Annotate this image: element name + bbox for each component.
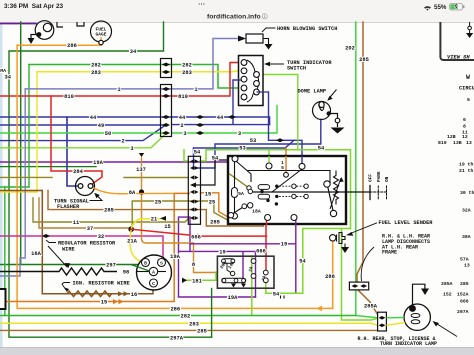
svg-text:13B: 13B	[453, 140, 462, 146]
wire navy in-box	[301, 156, 303, 163]
wire 37 tan	[39, 198, 130, 228]
svg-text:25: 25	[209, 200, 215, 206]
wire 285A brown diagonal	[358, 290, 378, 315]
wire black off-park-on	[346, 191, 370, 193]
svg-text:181: 181	[192, 278, 202, 284]
svg-text:TURN INDICATOR LAMP: TURN INDICATOR LAMP	[380, 341, 437, 347]
junction dot 21A	[128, 226, 134, 232]
svg-text:297: 297	[106, 262, 116, 268]
svg-text:285: 285	[359, 57, 369, 63]
svg-text:2: 2	[121, 139, 124, 145]
svg-text:fordification.info: fordification.info	[207, 14, 261, 21]
svg-text:1: 1	[117, 87, 120, 93]
svg-text:53: 53	[250, 138, 256, 144]
splice pair 2b	[196, 123, 204, 127]
status bar background	[0, 0, 474, 23]
view box symbols	[469, 22, 471, 33]
wire 53 navy connector drop	[194, 120, 321, 169]
disconnect contact 1	[379, 316, 386, 320]
splice pair 32	[42, 234, 50, 238]
wire 297 dark green	[0, 265, 156, 272]
breaker link	[233, 208, 242, 214]
turn switch inner shape	[247, 60, 259, 102]
svg-text:34: 34	[130, 49, 137, 55]
box main bus line	[253, 191, 346, 193]
contact pair c3-1	[190, 159, 199, 163]
fuse right circle r2	[251, 274, 256, 279]
sender body	[337, 233, 346, 244]
svg-text:38A: 38A	[462, 234, 471, 240]
wire purple in-box	[295, 219, 297, 225]
wire purple to instrument lamp	[0, 23, 36, 25]
wire 283 yellow top	[37, 71, 241, 72]
battery icon	[450, 4, 463, 11]
ign resistor label leader	[62, 283, 70, 291]
wire 19 purple right	[190, 219, 296, 292]
wire 15 orange connector	[201, 193, 231, 219]
fuse 666 circle	[263, 270, 268, 275]
svg-text:282: 282	[181, 314, 191, 320]
wire dark green horizontal 166	[0, 166, 96, 168]
svg-text:6: 6	[463, 117, 466, 123]
svg-text:810: 810	[178, 94, 188, 100]
off tick	[369, 186, 371, 200]
ignition pin C	[150, 279, 158, 287]
svg-text:57A: 57A	[460, 257, 469, 263]
svg-text:285: 285	[460, 281, 469, 287]
svg-text:GAGE: GAGE	[95, 32, 106, 38]
svg-text:54: 54	[299, 259, 306, 265]
contact pair c3-5	[190, 190, 199, 194]
wire 25 olive	[132, 201, 228, 228]
wire 282 green top	[29, 65, 241, 89]
connector C3 firewall	[188, 156, 200, 224]
svg-text:FRAME: FRAME	[382, 250, 397, 256]
disconnect label curve	[361, 247, 374, 281]
dome lamp junction dot	[327, 111, 331, 115]
splice pair 44b	[196, 115, 204, 119]
wire 202 green vertical	[356, 22, 378, 318]
svg-text:19 th: 19 th	[459, 162, 474, 168]
rear lamp grommet	[409, 305, 416, 312]
box diag t3	[272, 169, 302, 192]
wire 1 slate branch vertical	[0, 89, 25, 276]
svg-text:16: 16	[131, 292, 137, 298]
view sheet box	[440, 22, 474, 60]
box bottom terminal b1	[265, 215, 271, 221]
svg-text:12B: 12B	[447, 134, 456, 140]
svg-text:B: B	[144, 260, 147, 266]
svg-text:3: 3	[183, 131, 186, 137]
svg-text:3: 3	[130, 146, 133, 152]
wire 286 orange to fuel sender	[332, 241, 334, 308]
wire navy pin3	[233, 80, 241, 125]
wire 284 red	[51, 96, 102, 184]
svg-text:5A: 5A	[238, 191, 244, 197]
box inner top line	[247, 171, 330, 185]
wire 49 navy after connector to dome lamp	[172, 124, 270, 126]
arrow head 137	[139, 153, 144, 157]
svg-text:286: 286	[67, 43, 77, 49]
svg-text:30 th: 30 th	[460, 190, 474, 196]
fuel gage	[91, 21, 112, 45]
small marks under panel	[281, 296, 285, 299]
rheostat resistor	[334, 171, 339, 205]
sender ground	[344, 244, 346, 248]
box terminal t3	[299, 163, 305, 169]
ignition pin A	[149, 267, 157, 275]
svg-text:283: 283	[91, 70, 101, 76]
interior circles row	[292, 184, 296, 188]
wire 810 red	[0, 63, 241, 97]
ign resistor zigzag	[63, 291, 116, 297]
horn switch label leader	[262, 28, 276, 32]
wire green bottom-left vertical	[4, 187, 6, 316]
wire 49 navy	[0, 124, 165, 126]
capsule dots and dashes	[260, 185, 278, 206]
wire 50 green	[0, 132, 166, 134]
small circle olive	[247, 186, 251, 190]
wire 50 green after connector	[172, 106, 277, 134]
wire 282 green branch vertical	[28, 65, 30, 188]
box terminal t2	[266, 163, 272, 169]
dome lamp	[313, 102, 340, 128]
svg-text:15: 15	[164, 224, 170, 230]
svg-text:152: 152	[443, 292, 452, 298]
wire 283 yellow branch vertical	[36, 72, 38, 192]
svg-text:DOME LAMP: DOME LAMP	[298, 88, 327, 94]
svg-text:283: 283	[182, 70, 192, 76]
rear lamp feed wires	[386, 317, 404, 319]
junction dot 8A	[139, 189, 144, 194]
contact pair 49	[162, 123, 170, 127]
wire 15 orange box feed	[285, 148, 287, 173]
svg-text:137: 137	[136, 167, 146, 173]
svg-text:MA: MA	[0, 68, 6, 74]
lighter capsule 1	[258, 185, 270, 190]
turn switch label arrow	[266, 63, 284, 65]
wire 34 dark green	[9, 22, 212, 337]
svg-text:44: 44	[90, 115, 97, 121]
fuse 54 circle	[263, 278, 268, 283]
svg-text:666: 666	[256, 248, 266, 254]
svg-text:25: 25	[155, 200, 161, 206]
dome lamp ground arrow	[331, 128, 345, 134]
fuse capsule bottom	[222, 278, 246, 283]
wire 666 red diagonal	[131, 229, 266, 236]
wire 285 brown bus	[0, 329, 377, 331]
svg-text:286: 286	[325, 274, 335, 280]
dome lamp label leader	[329, 90, 337, 100]
frame contact 1	[352, 284, 359, 288]
wire red in-box	[266, 219, 268, 225]
wire black from c3-4	[196, 160, 230, 185]
svg-text:21A: 21A	[127, 239, 137, 245]
splice pair 3b	[196, 131, 204, 135]
svg-text:12: 12	[462, 134, 468, 140]
ignition switch	[137, 255, 172, 290]
svg-text:19: 19	[281, 242, 287, 248]
connector C1	[161, 59, 172, 78]
red splice arrow	[198, 234, 204, 239]
svg-text:13: 13	[464, 263, 470, 269]
contact pair 44	[162, 115, 170, 119]
splice arrows 16	[118, 291, 129, 296]
contact pair 1	[162, 87, 170, 91]
svg-text:666: 666	[191, 234, 201, 240]
wire green horizontal 187	[0, 186, 29, 188]
turn indicator switch body	[239, 56, 264, 106]
svg-text:15: 15	[101, 300, 107, 306]
contact pair 810	[162, 94, 170, 98]
svg-text:32A: 32A	[462, 208, 471, 214]
horn blowing switch body	[246, 34, 263, 43]
svg-text:37: 37	[87, 226, 93, 232]
svg-text:285A: 285A	[441, 281, 453, 287]
orange splice arrow	[316, 306, 322, 311]
olive diag in box	[229, 174, 247, 187]
orange box terminal	[284, 172, 289, 177]
wire lime in-box	[268, 156, 270, 163]
regulator label leader	[46, 240, 56, 243]
lighter capsule 2	[258, 194, 270, 199]
svg-text:286: 286	[170, 306, 180, 312]
svg-text:285: 285	[104, 208, 114, 214]
wire 53 navy	[269, 92, 303, 163]
left page edge strip	[0, 22, 3, 347]
svg-text:ⓘ: ⓘ	[262, 13, 268, 21]
bottom bar	[0, 348, 474, 355]
rear lamp label arrow	[434, 322, 457, 337]
contact pair c3-2	[190, 166, 199, 170]
svg-text:⋯: ⋯	[198, 2, 205, 9]
svg-text:15: 15	[205, 191, 211, 197]
wire 15 dark orange bottom	[0, 193, 189, 301]
contact pair c3-8	[190, 216, 199, 220]
svg-text:5: 5	[467, 97, 470, 103]
wire 666 red vertical fuse	[265, 219, 267, 270]
svg-text:666: 666	[460, 299, 469, 305]
contact pair 282	[162, 63, 170, 67]
breaker 18A circles	[228, 213, 233, 218]
wire 44 navy flasher branch	[67, 117, 78, 186]
wire 54 lime fuse panel	[266, 229, 351, 294]
svg-text:FLASHER: FLASHER	[57, 204, 80, 210]
svg-text:285: 285	[210, 219, 220, 225]
box terminal t4	[232, 213, 238, 219]
flasher orange tail	[93, 188, 174, 194]
svg-text:FUEL LEVEL SENDER: FUEL LEVEL SENDER	[378, 220, 433, 226]
svg-text:WIRE: WIRE	[62, 247, 75, 253]
svg-text:IGN. RESISTOR WIRE: IGN. RESISTOR WIRE	[73, 281, 130, 287]
cluster housing marks	[57, 22, 84, 27]
fuse panel arrows	[231, 284, 246, 288]
wire 1 slate	[25, 39, 238, 89]
left edge black component	[0, 289, 6, 309]
splice pair 44c	[228, 115, 236, 119]
arrow 181	[182, 278, 187, 283]
wire 32 magenta	[0, 236, 163, 259]
instrument lamp	[31, 21, 54, 40]
turn switch pins	[241, 60, 259, 100]
turn signal flasher	[76, 177, 95, 196]
svg-text:OFF: OFF	[369, 174, 374, 182]
contact pair c3-6	[190, 200, 199, 204]
contact pair c3-3	[190, 176, 199, 180]
wire 8A olive horizontal	[0, 176, 188, 178]
svg-text:19A: 19A	[170, 254, 180, 260]
svg-text:19A: 19A	[93, 160, 103, 166]
svg-text:8: 8	[463, 124, 466, 130]
svg-text:19: 19	[219, 249, 225, 255]
horn blowing switch triangle	[238, 36, 246, 42]
switch lever circles	[324, 181, 330, 187]
wire 297 green diagonal to A	[131, 265, 150, 272]
wire purple drop pair	[179, 217, 191, 297]
flasher label arrow	[90, 195, 103, 201]
svg-text:44: 44	[179, 115, 186, 121]
wire 54 lime box drop	[268, 150, 270, 163]
svg-text:285: 285	[197, 329, 207, 335]
fuse panel box	[217, 256, 274, 288]
wire yellow horizontal 192	[0, 191, 37, 193]
svg-text:98: 98	[123, 270, 129, 276]
box terminal t1	[232, 156, 238, 162]
wire 2 navy diagonal	[0, 126, 165, 141]
contact pair c3-7	[190, 208, 199, 212]
wire 54 lime to rear	[342, 229, 378, 321]
wire 3 lime diagonal	[0, 134, 166, 148]
wire brown horizontal 190	[0, 190, 42, 192]
rear lamp ground	[413, 284, 425, 305]
svg-text:285A: 285A	[364, 304, 378, 310]
wire 98 lead	[136, 271, 149, 273]
main switch box	[228, 156, 346, 224]
svg-text:S: S	[160, 260, 163, 266]
svg-text:3: 3	[238, 131, 241, 137]
box diag t1	[237, 162, 252, 183]
svg-text:11: 11	[73, 220, 79, 226]
svg-text:13: 13	[466, 140, 472, 146]
arrow yellow 21	[160, 216, 166, 221]
wire 137 olive vertical	[142, 158, 217, 273]
sender label arrow	[349, 223, 377, 234]
svg-text:W: W	[466, 74, 470, 81]
svg-text:810: 810	[64, 94, 74, 100]
disconnect contact 2	[379, 324, 386, 328]
wire 11 olive	[33, 198, 188, 222]
svg-text:55%: 55%	[434, 4, 447, 11]
rear disconnect connector	[378, 312, 387, 331]
svg-text:810: 810	[438, 140, 447, 146]
svg-text:202: 202	[345, 46, 355, 52]
svg-text:3:36 PM Sat Apr 23: 3:36 PM Sat Apr 23	[4, 3, 64, 10]
svg-text:8A: 8A	[129, 190, 136, 196]
wire 19 purple lower	[179, 251, 256, 297]
park dashed tick	[370, 186, 387, 200]
svg-text:54: 54	[212, 156, 219, 162]
svg-text:A: A	[152, 269, 155, 275]
svg-text:5: 5	[281, 165, 284, 171]
regulator label arrow	[48, 246, 67, 267]
svg-text:2: 2	[180, 123, 183, 129]
svg-text:53: 53	[239, 146, 245, 152]
svg-text:32: 32	[98, 234, 104, 240]
svg-text:49: 49	[98, 123, 104, 129]
svg-text:54: 54	[273, 291, 280, 297]
svg-text:54: 54	[194, 150, 201, 156]
svg-text:CIRCUIT: CIRCUIT	[459, 86, 474, 92]
svg-text:283: 283	[189, 321, 199, 327]
svg-text:21: 21	[151, 217, 157, 223]
wire 44 navy	[0, 117, 270, 125]
wire 285 brown vertical	[357, 22, 363, 282]
rear lamp circle	[404, 304, 430, 330]
wire 21 yellow curve	[131, 219, 160, 229]
fuel level sender	[330, 235, 336, 241]
frame contact 2	[360, 284, 367, 288]
svg-text:282: 282	[91, 63, 101, 69]
wire slate pin	[257, 91, 269, 93]
wire 285 brown upper	[48, 191, 263, 227]
wire 53 navy left segment	[194, 140, 295, 148]
svg-text:VIEW SH: VIEW SH	[447, 55, 470, 61]
svg-text:HORN BLOWING SWITCH: HORN BLOWING SWITCH	[277, 26, 337, 32]
fuse capsule top	[222, 259, 235, 264]
wire 286 orange top	[17, 38, 101, 45]
svg-text:C: C	[152, 281, 155, 287]
svg-text:34: 34	[5, 74, 12, 80]
wire 297A dark green feed	[211, 289, 213, 338]
svg-text:16A: 16A	[31, 251, 41, 257]
wire 54 lime top	[184, 150, 188, 161]
svg-text:282: 282	[182, 63, 192, 69]
wire 282 green bus	[0, 315, 356, 317]
svg-text:54: 54	[318, 145, 325, 151]
wire 181 lime	[186, 272, 216, 280]
contact arrow c3-4	[190, 182, 196, 187]
switch lever	[328, 187, 333, 211]
fuse 5A leads	[234, 162, 236, 214]
svg-text:19A: 19A	[228, 295, 238, 301]
svg-text:8: 8	[192, 262, 195, 268]
fuse mid circle	[230, 271, 234, 275]
ignition pin B	[142, 259, 150, 267]
rheostat arrow	[330, 178, 341, 209]
connector C2	[161, 85, 172, 137]
ground arrow instrument lamp	[28, 38, 35, 44]
ignition pin S	[158, 259, 166, 267]
svg-text:SWITCH: SWITCH	[287, 65, 306, 71]
box bottom terminal b2	[291, 215, 297, 221]
svg-text:297A: 297A	[170, 335, 184, 341]
splice arrows 15	[113, 299, 124, 304]
wire dark green long vertical	[20, 22, 22, 265]
svg-text:50: 50	[105, 131, 111, 137]
contact pair 50	[162, 131, 170, 135]
fuse right circle r1	[251, 259, 256, 264]
wire orange in-box	[285, 156, 287, 173]
wire 15 orange vertical-left	[17, 45, 333, 308]
wire 54 lime vertical 251	[251, 256, 253, 316]
svg-text:152A: 152A	[457, 292, 469, 298]
wire 54 lime main	[200, 150, 351, 229]
horn switch ground wire	[263, 39, 269, 45]
wire 54 lime to switch pin	[258, 75, 298, 150]
horn switch ground arrow	[265, 44, 273, 50]
svg-text:ON: ON	[385, 176, 390, 182]
svg-text:44: 44	[217, 115, 224, 121]
